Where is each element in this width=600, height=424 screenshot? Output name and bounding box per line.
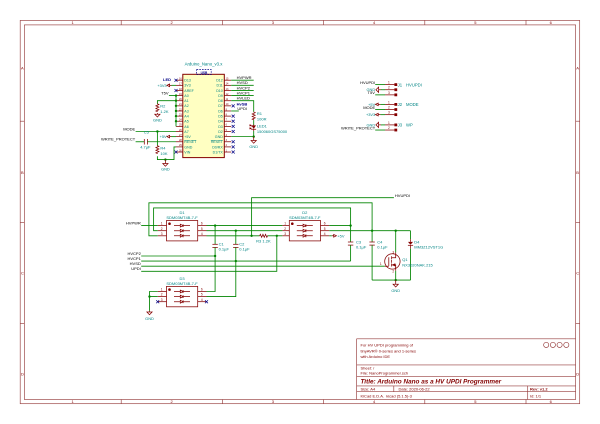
svg-text:WRITE_PROTECT: WRITE_PROTECT xyxy=(101,137,136,142)
svg-text:D11: D11 xyxy=(216,84,222,88)
connector J3 WP xyxy=(385,121,413,132)
svg-text:1.2K: 1.2K xyxy=(160,109,169,114)
no-connect D1/TX xyxy=(232,151,235,154)
power +3V3 at J2.3 xyxy=(366,112,385,117)
svg-text:D4: D4 xyxy=(218,120,223,124)
junction C2 top xyxy=(235,230,237,232)
junction GND net xyxy=(164,158,166,160)
svg-text:2: 2 xyxy=(388,106,390,110)
ground at J3.1 xyxy=(367,122,385,127)
wire A1 to R2 xyxy=(157,101,176,104)
svg-text:Rev: v1.2: Rev: v1.2 xyxy=(530,386,548,391)
ground at J1.2 xyxy=(367,87,385,92)
svg-text:D1/TX: D1/TX xyxy=(213,150,224,154)
wire D1.2 loop to D2.6 xyxy=(154,208,351,231)
resistor R3 xyxy=(256,234,271,243)
wire C1 bottom to D3.6 xyxy=(207,256,216,292)
svg-text:C: C xyxy=(576,271,579,276)
no-connect D2 xyxy=(232,130,235,133)
junction A4 xyxy=(175,115,177,117)
svg-text:3V3: 3V3 xyxy=(184,84,190,88)
resistor R4 xyxy=(156,145,168,156)
svg-text:C5: C5 xyxy=(144,129,150,134)
no-connect D4 xyxy=(232,120,235,123)
svg-text:Size: A4: Size: A4 xyxy=(361,386,376,391)
svg-text:tinyAVR® 0-series and 1-series: tinyAVR® 0-series and 1-series xyxy=(361,348,417,353)
wire GND pin right xyxy=(231,136,254,138)
no-connect D7 + blue note xyxy=(232,102,248,108)
svg-text:2: 2 xyxy=(161,293,163,297)
svg-text:A1: A1 xyxy=(184,99,188,103)
svg-text:3: 3 xyxy=(161,298,163,302)
svg-text:T5V: T5V xyxy=(161,91,169,96)
title block text xyxy=(361,343,549,399)
wire D2.5 right xyxy=(329,230,410,232)
no-connect AREF xyxy=(175,89,178,92)
svg-text:MODE: MODE xyxy=(123,126,135,131)
svg-text:HVPWR: HVPWR xyxy=(126,221,141,226)
svg-text:2: 2 xyxy=(284,227,286,231)
svg-text:5: 5 xyxy=(324,227,326,231)
svg-text:R2: R2 xyxy=(160,104,166,109)
svg-text:A7: A7 xyxy=(184,130,188,134)
svg-text:RESET: RESET xyxy=(211,140,224,144)
power +3V3 at 3V3 pin xyxy=(157,83,176,88)
svg-text:MODE: MODE xyxy=(406,102,419,107)
ground below R4 xyxy=(161,160,170,172)
svg-text:100R: 100R xyxy=(257,117,267,122)
svg-text:4: 4 xyxy=(201,298,203,302)
label T5V + wire J1.3 xyxy=(368,90,385,95)
ground below R2 xyxy=(153,113,162,123)
label T5V + wire to A0 xyxy=(161,91,176,96)
label MODE + wire J2.2 xyxy=(363,105,385,110)
svg-text:D10: D10 xyxy=(216,89,223,93)
svg-text:File: NanoProgrammer.sch: File: NanoProgrammer.sch xyxy=(361,371,409,376)
power +5V at D2.4 xyxy=(329,233,345,238)
junction D2.6/C3 xyxy=(349,224,351,226)
wire C5 to RESET xyxy=(147,141,176,143)
svg-text:C: C xyxy=(21,271,24,276)
wire D1.4 to R3 xyxy=(207,235,260,237)
svg-text:GND: GND xyxy=(215,135,223,139)
wire D3.1-D3.2 tie xyxy=(150,292,158,297)
usb connector mark on symbol xyxy=(197,70,212,75)
title block logo circles xyxy=(544,342,569,347)
svg-text:HVSD: HVSD xyxy=(130,261,141,266)
svg-text:MM3Z12VST1G: MM3Z12VST1G xyxy=(414,244,443,249)
ground below LED1 xyxy=(249,137,258,149)
svg-text:0.1µF: 0.1µF xyxy=(219,247,230,252)
junction A1 xyxy=(175,100,177,102)
wire D11 HVSD xyxy=(231,80,254,85)
svg-text:4.7µF: 4.7µF xyxy=(140,145,151,150)
junction MODE/R4 xyxy=(156,130,158,132)
svg-text:VIN: VIN xyxy=(184,150,190,154)
svg-text:UPDI: UPDI xyxy=(131,266,141,271)
svg-text:2: 2 xyxy=(388,126,390,130)
arduino right pin names xyxy=(211,79,224,155)
svg-text:+5V: +5V xyxy=(184,135,191,139)
svg-text:3: 3 xyxy=(388,91,390,95)
svg-text:USB: USB xyxy=(201,71,208,75)
no-connect RESET right xyxy=(232,140,235,143)
wire GND pin to R4 bottom xyxy=(157,147,176,160)
svg-text:D7: D7 xyxy=(218,104,223,108)
svg-text:2: 2 xyxy=(161,227,163,231)
svg-text:0.1µF: 0.1µF xyxy=(356,244,367,249)
LED LED1 xyxy=(250,124,288,134)
svg-text:1: 1 xyxy=(388,100,390,104)
svg-text:MODE: MODE xyxy=(363,105,375,110)
svg-text:5: 5 xyxy=(201,293,203,297)
svg-text:1: 1 xyxy=(284,222,286,226)
svg-text:HVUPDI: HVUPDI xyxy=(406,82,422,87)
wire D1.5 to D2.2 xyxy=(207,230,283,232)
junction A5 xyxy=(175,120,177,122)
svg-text:0.1µF: 0.1µF xyxy=(377,244,388,249)
no-connect D13 xyxy=(175,79,178,82)
junction UPDI tap xyxy=(276,235,278,237)
svg-text:Arduino_Nano_v3.x: Arduino_Nano_v3.x xyxy=(185,62,224,67)
svg-text:A0: A0 xyxy=(184,94,188,98)
diode array D2 SDM03MT4B-7-F xyxy=(282,210,329,241)
svg-text:SDM03MT4B-7-F: SDM03MT4B-7-F xyxy=(289,215,321,220)
svg-text:A3: A3 xyxy=(184,109,188,113)
capacitor C4 xyxy=(369,231,388,280)
svg-text:+3V3: +3V3 xyxy=(366,112,375,117)
wire D9 HVCP1 xyxy=(231,91,254,96)
wire D1.6 to D2.1 xyxy=(207,225,283,227)
svg-text:A: A xyxy=(576,66,579,71)
svg-text:2: 2 xyxy=(392,270,394,274)
wire R3 to D2.3 xyxy=(268,235,283,237)
svg-text:D5: D5 xyxy=(218,115,223,119)
svg-text:KiCad E.D.A. kicad (5.1.5)-3: KiCad E.D.A. kicad (5.1.5)-3 xyxy=(361,394,413,399)
svg-text:+5V: +5V xyxy=(337,233,344,238)
svg-text:HVUPDI: HVUPDI xyxy=(360,80,375,85)
diode array D1 SDM03MT4B-7-F xyxy=(158,210,207,241)
svg-text:AREF: AREF xyxy=(184,89,194,93)
no-connect D3 xyxy=(232,125,235,128)
svg-text:D12: D12 xyxy=(216,79,223,83)
svg-text:HVLED: HVLED xyxy=(237,96,250,101)
svg-text:4: 4 xyxy=(201,232,203,236)
wire D6 UPDI label xyxy=(231,106,247,111)
svg-text:R3 1.2K: R3 1.2K xyxy=(256,239,271,244)
svg-text:A: A xyxy=(21,66,24,71)
wire gnd rail xyxy=(372,279,410,281)
junction HVCP2/C1 xyxy=(214,255,216,257)
svg-text:GND: GND xyxy=(391,288,400,293)
svg-text:NX3020NAK.215: NX3020NAK.215 xyxy=(402,262,433,267)
svg-text:R4: R4 xyxy=(160,145,166,150)
label WRITE_PROTECT + wire to C5 xyxy=(101,137,144,142)
svg-text:LED1: LED1 xyxy=(257,124,268,129)
svg-text:with Arduino IDE: with Arduino IDE xyxy=(361,354,391,359)
svg-text:1: 1 xyxy=(388,121,390,125)
svg-text:5: 5 xyxy=(201,227,203,231)
wire R1 to LED1 xyxy=(253,120,255,125)
wire D2.6 right xyxy=(329,225,350,227)
wire MODE to R4 xyxy=(156,132,158,146)
svg-text:A4: A4 xyxy=(184,115,188,119)
svg-text:Title: Arduino Nano as a HV UP: Title: Arduino Nano as a HV UPDI Program… xyxy=(361,379,502,386)
svg-text:+5V: +5V xyxy=(160,134,167,139)
arduino module U (Arduino_Nano_v3.x) xyxy=(183,62,225,158)
svg-text:10K: 10K xyxy=(160,151,167,156)
svg-text:D3: D3 xyxy=(218,125,223,129)
svg-text:D0/RX: D0/RX xyxy=(212,145,223,149)
label HVCP2 + row wire xyxy=(127,251,215,256)
junction D2.5/C4 xyxy=(371,230,373,232)
power +5V at J2.1 xyxy=(368,102,385,107)
svg-text:Date: 2020-06-22: Date: 2020-06-22 xyxy=(399,386,431,391)
capacitor C3 xyxy=(348,226,367,262)
svg-text:D9: D9 xyxy=(218,94,223,98)
svg-text:+3V3: +3V3 xyxy=(157,83,166,88)
svg-text:3: 3 xyxy=(284,232,286,236)
arduino right pin stubs xyxy=(224,80,231,152)
svg-text:A5: A5 xyxy=(184,120,188,124)
label HVPWR + wire to D1.1 xyxy=(126,221,158,226)
svg-text:For HV UPDI programming of: For HV UPDI programming of xyxy=(361,343,414,348)
svg-text:D: D xyxy=(576,372,579,377)
label MODE + wire to A7 xyxy=(123,126,176,131)
svg-text:3: 3 xyxy=(392,250,394,254)
svg-text:LED: LED xyxy=(163,77,171,82)
svg-text:1: 1 xyxy=(380,262,382,266)
power +5V at +5V pin xyxy=(160,134,176,139)
no-connect D5 xyxy=(232,115,235,118)
no-connect VIN xyxy=(175,151,178,154)
no-connect D3.4 xyxy=(205,300,208,303)
wire D1.3 loop to D2.5 xyxy=(149,203,372,236)
svg-text:Id: 1/1: Id: 1/1 xyxy=(530,394,542,399)
junction A2 xyxy=(175,105,177,107)
junction Q1 drain tap xyxy=(395,230,397,232)
connector J2 MODE xyxy=(385,100,419,116)
svg-text:D: D xyxy=(21,372,24,377)
svg-text:SDM03MT4B-7-F: SDM03MT4B-7-F xyxy=(166,281,198,286)
svg-text:UPDI: UPDI xyxy=(237,106,247,111)
arduino left pin stubs xyxy=(176,80,183,152)
no-connect D3.3 xyxy=(156,300,159,303)
label HVCP1 + row wire xyxy=(127,256,350,261)
svg-text:RESET: RESET xyxy=(184,140,197,144)
svg-text:6: 6 xyxy=(201,288,203,292)
resistor R1 xyxy=(252,111,266,122)
arduino pin numbers xyxy=(179,78,229,153)
capacitor C5 4.7uF xyxy=(140,129,151,149)
transistor Q1 NX3020NAK.215 xyxy=(380,231,434,274)
wire UPDI riser xyxy=(141,236,277,271)
wire D8 HVLED xyxy=(231,96,254,112)
label HVSD + row wire to Q1 gate xyxy=(130,261,385,266)
diode array D3 SDM03MT4B-7-F xyxy=(158,276,207,307)
svg-text:A2: A2 xyxy=(184,104,188,108)
svg-text:2: 2 xyxy=(388,86,390,90)
wire Q1 source to gnd rail xyxy=(395,267,397,271)
label WRITE_PROTECT + wire J3.2 xyxy=(341,125,385,130)
svg-text:WP: WP xyxy=(406,123,413,128)
capacitor C2 xyxy=(233,231,250,261)
junction C1 top xyxy=(214,224,216,226)
ground below Q1 xyxy=(391,280,400,293)
svg-text:150060GS75000: 150060GS75000 xyxy=(257,129,288,134)
svg-text:1: 1 xyxy=(161,222,163,226)
svg-text:R1: R1 xyxy=(257,111,263,116)
svg-text:B: B xyxy=(576,170,579,175)
wire HVUPDI riser and line to label xyxy=(252,198,394,236)
svg-text:T5V: T5V xyxy=(368,90,376,95)
svg-text:WRITE_PROTECT: WRITE_PROTECT xyxy=(341,125,376,130)
zener diode D4 MM3Z12VST1G xyxy=(408,231,443,280)
svg-text:J1: J1 xyxy=(398,82,403,87)
junction D3 gnd xyxy=(148,295,150,297)
connector J1 HVUPDI xyxy=(385,81,422,97)
svg-text:0.1µF: 0.1µF xyxy=(239,247,250,252)
svg-text:D8: D8 xyxy=(218,99,223,103)
svg-text:D6: D6 xyxy=(218,109,223,113)
svg-text:D13: D13 xyxy=(184,79,191,83)
no-connect D0/RX xyxy=(232,145,235,148)
wire LED1 to GND net xyxy=(253,131,255,137)
wire C2 bottom to D3.5 xyxy=(207,261,236,297)
svg-text:SDM03MT4B-7-F: SDM03MT4B-7-F xyxy=(166,215,198,220)
svg-text:B: B xyxy=(21,170,24,175)
resistor R2 xyxy=(156,104,169,115)
svg-text:J2: J2 xyxy=(398,102,403,107)
svg-text:3: 3 xyxy=(388,111,390,115)
junction A0 xyxy=(175,94,177,96)
svg-text:1: 1 xyxy=(388,81,390,85)
svg-text:D2: D2 xyxy=(218,130,223,134)
wire D12 HVPWR xyxy=(231,75,254,80)
svg-text:3: 3 xyxy=(161,232,163,236)
wire A0-A6 tie vertical xyxy=(175,96,177,127)
svg-text:6: 6 xyxy=(324,222,326,226)
svg-text:A6: A6 xyxy=(184,125,188,129)
svg-text:J3: J3 xyxy=(398,123,403,128)
wire D10 HVCP2 xyxy=(231,85,254,90)
junction gnd rail xyxy=(395,279,397,281)
junction HVUPDI tap xyxy=(250,235,252,237)
junction A3 xyxy=(175,110,177,112)
arduino left pin names xyxy=(184,79,197,155)
svg-text:GND: GND xyxy=(184,145,192,149)
svg-text:6: 6 xyxy=(201,222,203,226)
svg-text:4: 4 xyxy=(324,232,326,236)
svg-text:GND: GND xyxy=(161,167,170,172)
title block xyxy=(357,339,576,400)
svg-text:1: 1 xyxy=(161,288,163,292)
junction HVCP1/C2 xyxy=(235,260,237,262)
junction GND right xyxy=(253,135,255,137)
capacitor C1 xyxy=(212,226,229,256)
svg-text:GND: GND xyxy=(249,144,258,149)
svg-text:GND: GND xyxy=(153,118,162,123)
svg-text:HVUPDI: HVUPDI xyxy=(395,193,410,198)
label HVUPDI + wire J1.1 xyxy=(360,80,385,85)
svg-text:GND: GND xyxy=(145,316,154,321)
ground below D3 xyxy=(145,297,154,321)
